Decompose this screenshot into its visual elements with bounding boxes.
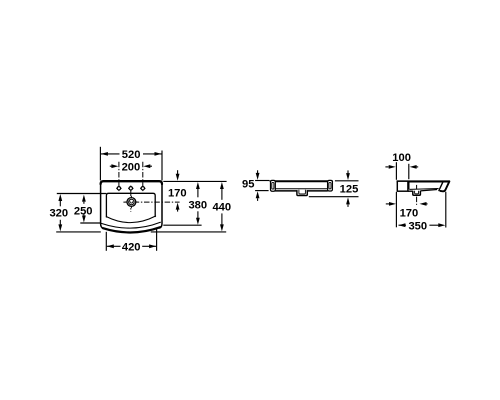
- svg-text:250: 250: [74, 206, 93, 218]
- svg-text:170: 170: [400, 208, 419, 220]
- basin left side: [101, 183, 104, 228]
- bottom edge right of bump: [420, 190, 437, 191]
- bowl floor: [409, 188, 438, 191]
- svg-text:380: 380: [188, 199, 207, 211]
- dim 520: [101, 149, 162, 161]
- svg-text:100: 100: [392, 152, 411, 164]
- svg-text:320: 320: [49, 208, 68, 220]
- apron bottom thick arc: [103, 227, 160, 232]
- drain: [125, 196, 137, 208]
- bottom edge left of bump: [408, 190, 413, 192]
- bowl back wall: [408, 182, 410, 189]
- dim 125: [340, 170, 359, 207]
- dim 320: [49, 194, 68, 231]
- basin right side: [159, 183, 162, 228]
- svg-text:200: 200: [122, 161, 141, 173]
- profile top edge thick: [397, 180, 449, 182]
- dim 200: [110, 161, 152, 173]
- basin outer top edge (thick): [101, 181, 162, 184]
- svg-text:95: 95: [242, 178, 254, 190]
- drain centreline right view: [416, 185, 418, 205]
- extension lines middle: [255, 181, 358, 197]
- svg-text:520: 520: [122, 149, 141, 161]
- extension lines front: [56, 147, 226, 251]
- outer bottom thick: [275, 190, 297, 192]
- inner basin bottom arc: [106, 216, 155, 223]
- drain bump middle: [297, 190, 307, 196]
- dim 440: [212, 182, 231, 231]
- top edge thick: [271, 180, 333, 182]
- right end cap: [328, 180, 333, 191]
- dim 380: [188, 182, 207, 225]
- left end cap: [271, 180, 276, 191]
- svg-text:440: 440: [212, 202, 231, 214]
- dim 420: [107, 242, 156, 254]
- dim 95: [242, 170, 260, 201]
- svg-text:170: 170: [168, 188, 187, 200]
- wall extension line: [396, 162, 445, 227]
- svg-text:420: 420: [122, 242, 141, 254]
- drain bump right view: [413, 191, 421, 195]
- dim 100: [385, 152, 418, 169]
- back mounting block: [397, 181, 408, 191]
- tap hole left: [116, 186, 122, 192]
- svg-text:350: 350: [408, 221, 427, 233]
- tap hole right: [140, 186, 146, 192]
- svg-text:125: 125: [340, 183, 359, 195]
- dim 350: [398, 221, 445, 233]
- inner basin rect: [106, 193, 155, 217]
- dim 170 front: [168, 170, 187, 211]
- dim 250: [74, 195, 93, 223]
- dim 170 right: [386, 202, 428, 220]
- front beak: [439, 181, 450, 191]
- inner bottom thin: [275, 188, 327, 190]
- tap hole centre: [128, 186, 134, 192]
- apron top thin arc: [101, 222, 160, 228]
- centrelines (dash-dot): [119, 162, 180, 212]
